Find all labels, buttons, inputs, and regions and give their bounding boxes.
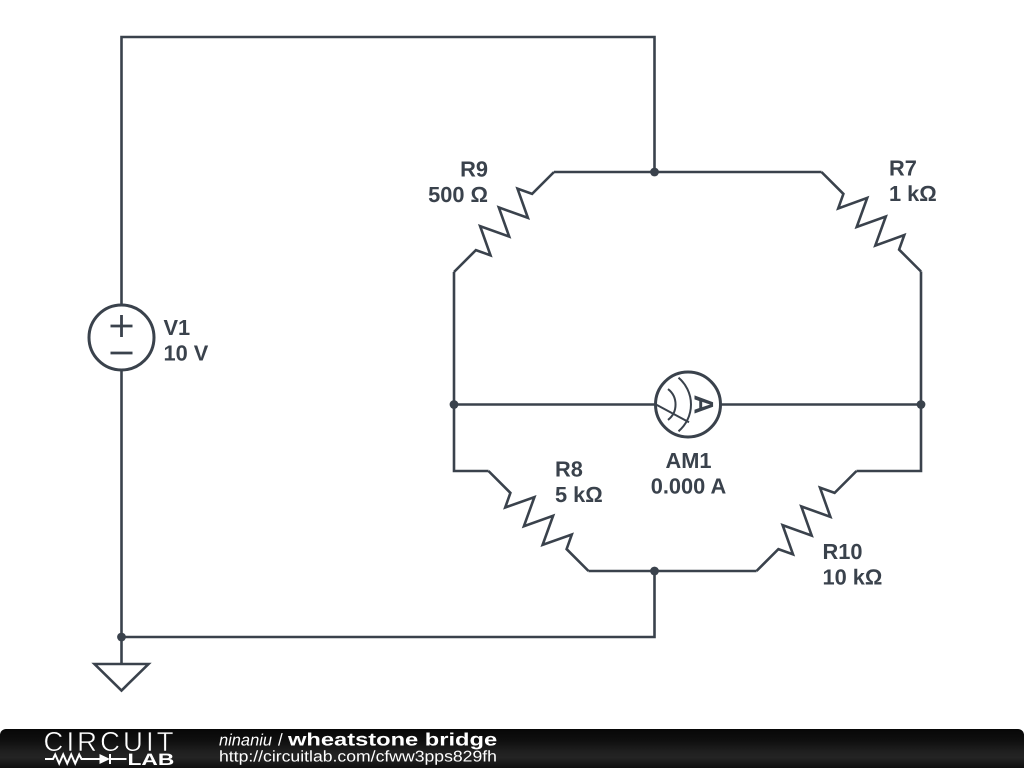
node top xyxy=(650,168,659,177)
wire R9 to left node xyxy=(453,272,456,405)
resistor R10 xyxy=(757,471,857,571)
ammeter outer scale arc xyxy=(679,378,691,432)
ground xyxy=(95,664,149,691)
wire ground stub xyxy=(120,637,123,664)
wire R7 to right node xyxy=(920,272,923,405)
svg-text:wheatstone bridge: wheatstone bridge xyxy=(287,729,497,749)
svg-text:LAB: LAB xyxy=(128,751,175,768)
svg-text:http://circuitlab.com/cfww3pps: http://circuitlab.com/cfww3pps829fh xyxy=(219,749,497,766)
wire top loop V1 to top node xyxy=(122,37,655,304)
resistor R9 xyxy=(454,172,554,272)
logo doodle resistor and diode xyxy=(45,754,127,764)
resistor R8 xyxy=(489,471,589,571)
wire R8 to bottom node xyxy=(589,570,655,573)
svg-text:500 Ω: 500 Ω xyxy=(428,182,488,207)
wire top node to R9 xyxy=(554,171,655,174)
ammeter needle xyxy=(656,405,689,423)
svg-text:/: / xyxy=(278,730,283,749)
V1 minus sign xyxy=(111,352,133,355)
svg-text:R7: R7 xyxy=(889,156,917,181)
svg-text:10 kΩ: 10 kΩ xyxy=(823,565,883,590)
wire top node to R7 xyxy=(655,171,822,174)
ammeter AM1 circle xyxy=(656,372,721,437)
footer bar xyxy=(0,729,1024,768)
svg-text:AM1: AM1 xyxy=(665,448,711,473)
svg-text:1 kΩ: 1 kΩ xyxy=(889,181,937,206)
svg-text:ninaniu: ninaniu xyxy=(219,731,272,749)
V1 plus sign xyxy=(111,315,133,337)
svg-text:R9: R9 xyxy=(460,157,488,182)
wire left node to R8 xyxy=(454,405,489,472)
wire bottom loop V1 to bottom node xyxy=(122,371,655,637)
resistor R7 xyxy=(822,172,922,272)
wire bottom node to R10 xyxy=(655,570,757,573)
svg-text:V1: V1 xyxy=(164,315,191,340)
node ground junction xyxy=(117,633,126,642)
ammeter inner scale arc xyxy=(668,389,676,420)
wire mid row left node to ammeter xyxy=(454,403,656,406)
svg-text:5 kΩ: 5 kΩ xyxy=(555,482,603,507)
wire mid row ammeter to right node xyxy=(721,403,922,406)
node bottom xyxy=(650,567,659,576)
svg-text:A: A xyxy=(689,395,719,415)
svg-text:R10: R10 xyxy=(823,539,863,564)
svg-text:0.000 A: 0.000 A xyxy=(651,474,727,499)
wire R10 to right node xyxy=(857,405,922,472)
svg-text:R8: R8 xyxy=(555,457,583,482)
svg-text:10 V: 10 V xyxy=(164,341,209,366)
node right xyxy=(917,400,926,409)
node left xyxy=(450,400,459,409)
voltage source V1 circle xyxy=(89,305,154,370)
